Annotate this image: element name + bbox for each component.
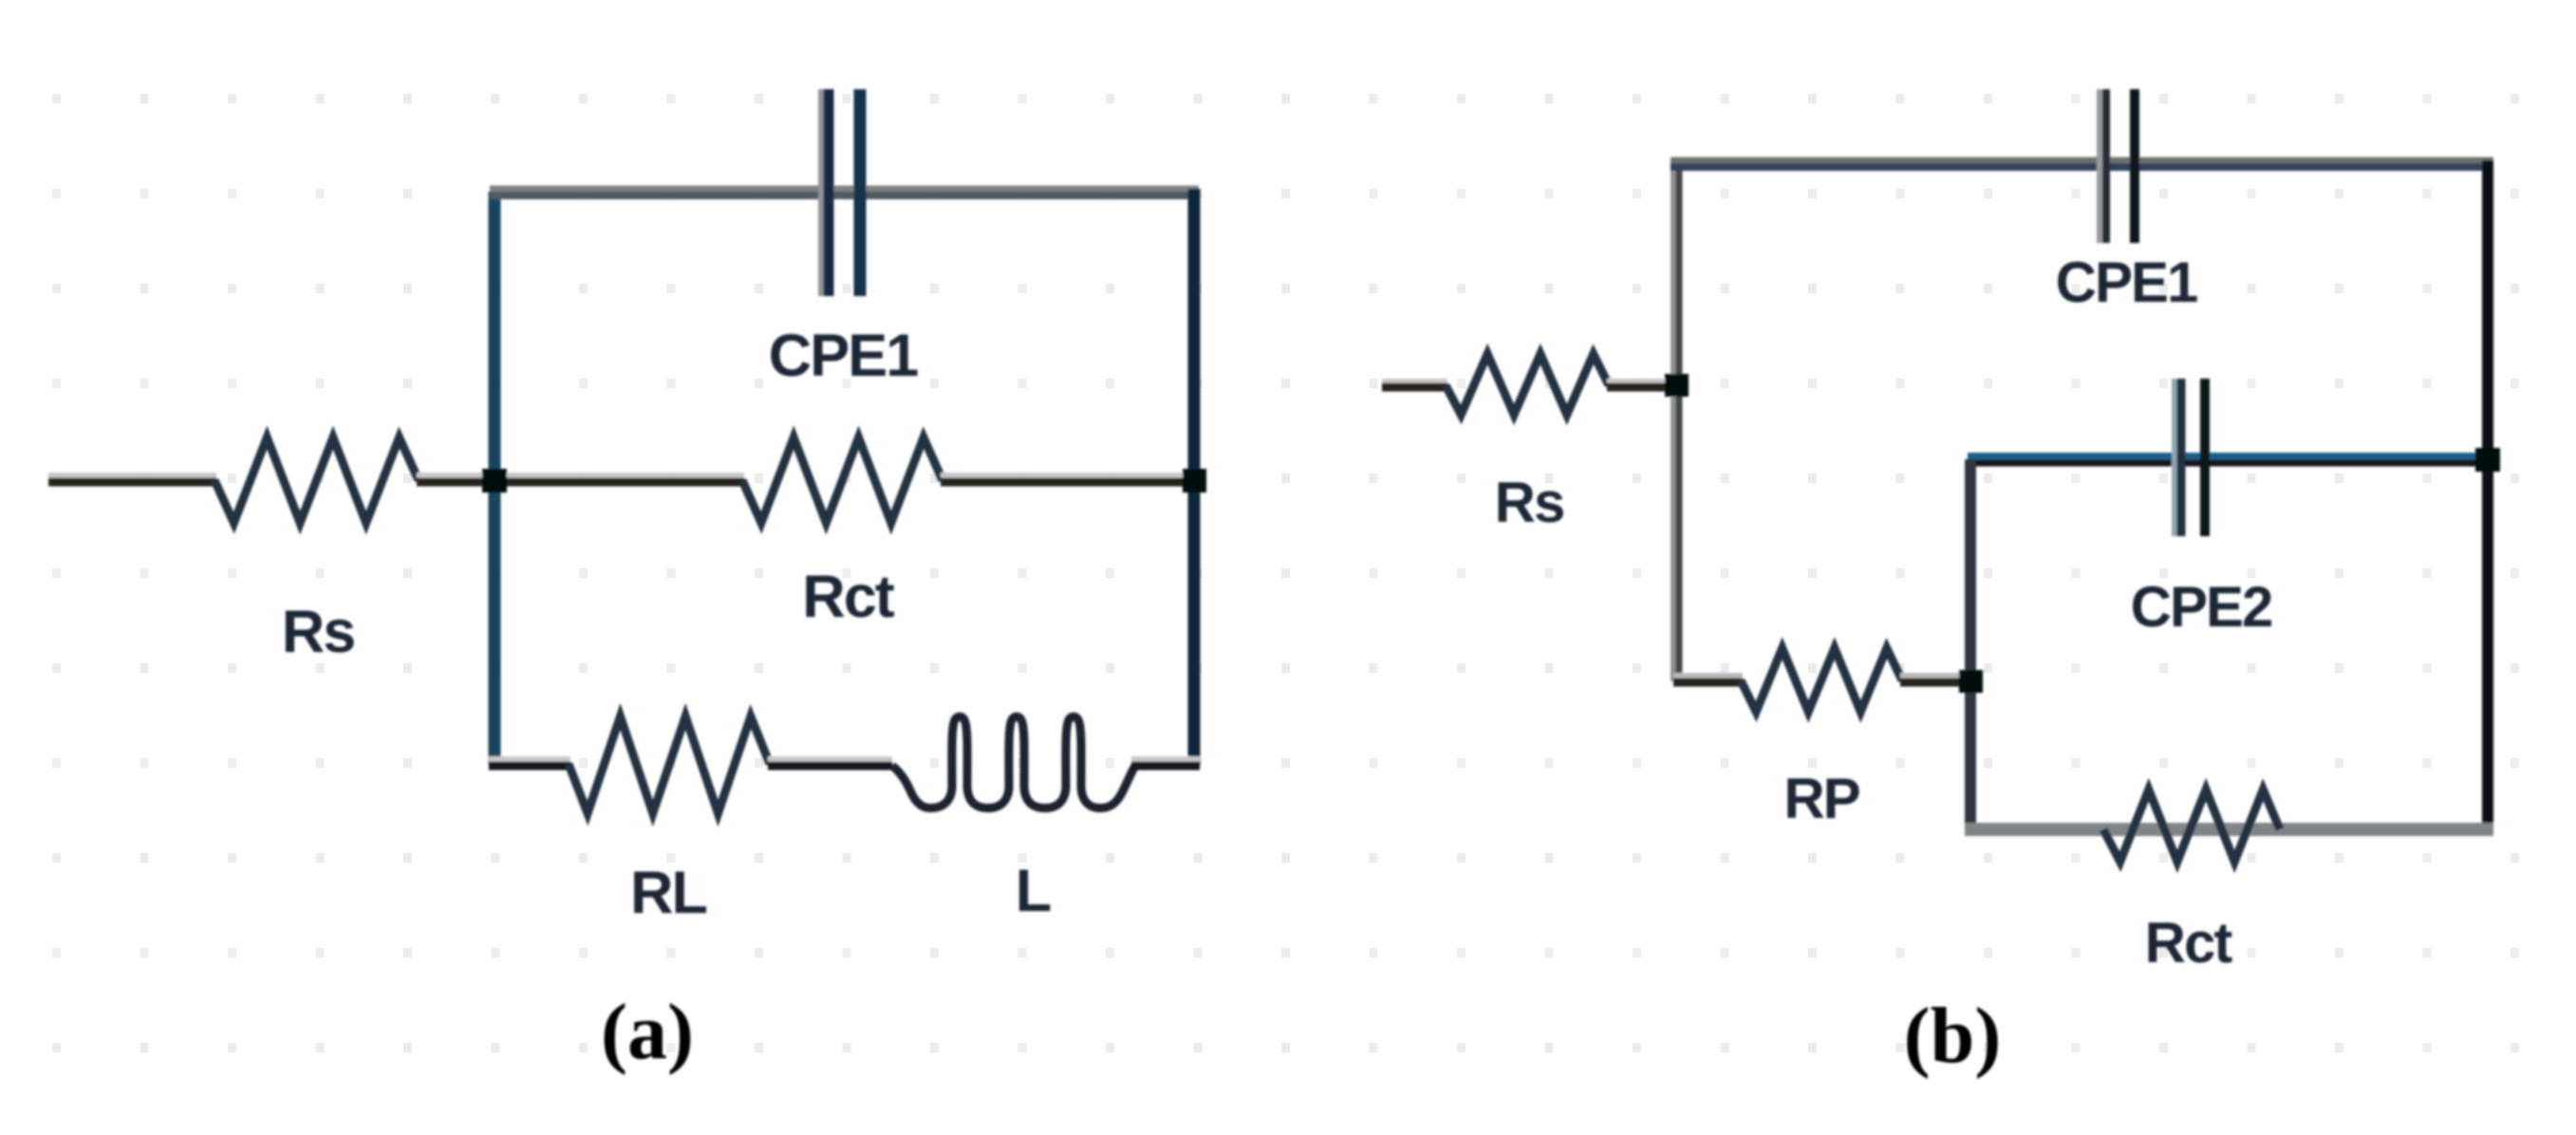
capacitor CPE2 plates [2175, 379, 2205, 536]
wire top rail of b [1671, 160, 2493, 167]
svg-text:Rct: Rct [2145, 911, 2233, 975]
svg-text:(a): (a) [601, 988, 694, 1076]
svg-text:L: L [1016, 858, 1051, 924]
wire bottom rail middle segment [768, 759, 892, 766]
wire right vertical of b [2482, 160, 2493, 833]
capacitor CPE1 (a) plates [821, 89, 860, 296]
resistor RL (a) [569, 716, 770, 813]
wire left vertical of b [1673, 163, 1679, 681]
wire mid branch left segment [495, 475, 744, 482]
wire Rs to node A [417, 475, 497, 482]
wire mid rail of b (CPE2 branch) [1968, 456, 2488, 463]
wire top rail of box a [490, 189, 1199, 195]
wire bottom rail right segment [1131, 759, 1200, 766]
wire right vertical edge of box a [1188, 189, 1201, 764]
node B junction dot [1183, 469, 1206, 493]
svg-text:CPE2: CPE2 [2131, 575, 2272, 639]
resistor Rs [215, 437, 419, 523]
svg-text:CPE1: CPE1 [2056, 251, 2197, 314]
wire mid vertical of b [1965, 459, 1976, 829]
wire RP branch left segment [1673, 676, 1743, 682]
wire input left of Rs [48, 475, 216, 482]
resistor Rs (b) [1446, 354, 1609, 415]
svg-text:RL: RL [630, 860, 706, 926]
wire Rs to node C [1607, 381, 1680, 387]
svg-text:RP: RP [1783, 767, 1858, 830]
wire input left of Rs (b) [1382, 381, 1447, 387]
wire bottom rail of b [1965, 823, 2493, 836]
node E junction dot [1959, 670, 1983, 693]
wire mid branch right segment [941, 475, 1194, 482]
svg-text:Rs: Rs [282, 599, 355, 665]
wire RP to node E [1900, 676, 1970, 682]
capacitor CPE1 (b) plates [2100, 89, 2135, 243]
wire bottom rail left segment [489, 759, 570, 766]
inductor L (a) [892, 716, 1135, 808]
svg-text:Rct: Rct [802, 564, 895, 630]
resistor Rct (a) [742, 437, 943, 523]
node A junction dot [482, 469, 507, 493]
node C junction dot [1665, 374, 1689, 397]
svg-text:Rs: Rs [1495, 471, 1564, 534]
node D junction dot [2475, 448, 2500, 472]
svg-text:CPE1: CPE1 [769, 323, 919, 389]
resistor RP [1741, 648, 1902, 712]
resistor Rct (b) [2103, 790, 2280, 862]
wire left vertical edge of box a [489, 192, 501, 764]
svg-text:(b): (b) [1904, 992, 2002, 1080]
